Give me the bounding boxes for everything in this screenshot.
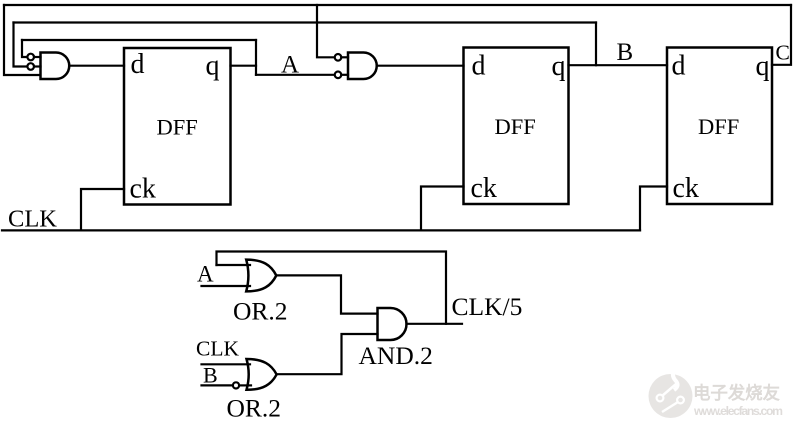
or-gate OR5 (bottom OR.2)	[247, 359, 277, 390]
svg-text:DFF: DFF	[698, 114, 739, 139]
svg-text:CLK: CLK	[196, 336, 239, 360]
svg-text:d: d	[672, 51, 686, 82]
svg-text:CLK/5: CLK/5	[452, 292, 523, 321]
and-gate AND4 (AND.2)	[378, 308, 407, 340]
wire node B: DFF2 q to DFF3 d	[569, 64, 668, 66]
wire net-A left drop to G1 bubble1	[22, 40, 27, 57]
svg-text:DFF: DFF	[495, 114, 536, 139]
wire AND4 output (CLK/5)	[407, 323, 463, 325]
svg-text:B: B	[617, 39, 634, 66]
svg-text:ck: ck	[130, 174, 156, 205]
wire net-C left drop to G1 input3	[4, 5, 40, 75]
svg-text:q: q	[206, 51, 220, 82]
svg-text:ck: ck	[471, 173, 497, 204]
dff U3	[667, 48, 772, 205]
svg-text:CLK: CLK	[8, 206, 57, 233]
wire OR3 output to AND4 input1	[277, 275, 378, 313]
svg-text:ck: ck	[673, 173, 699, 204]
wire net-C drop to G2 bubble1	[317, 5, 335, 57]
wire net-A right drop to A wire	[255, 40, 257, 75]
svg-text:A: A	[281, 52, 299, 79]
and-gate G2 (2-input, both inverted)	[335, 53, 377, 80]
svg-text:B: B	[203, 362, 218, 387]
wire DFF1 q to node A vertical	[231, 65, 257, 67]
or-gate OR3 (top OR.2)	[246, 260, 276, 292]
wire CLK branch to DFF2 ck	[421, 187, 464, 231]
wire CLK input to OR5	[202, 363, 251, 365]
and-gate G1 (3-input, two inverted)	[27, 53, 69, 80]
dff U2	[464, 48, 569, 205]
svg-text:C: C	[776, 41, 790, 65]
svg-text:电子发烧友: 电子发烧友	[693, 383, 781, 403]
wire A input to OR3	[202, 285, 251, 287]
svg-text:www.elecfans.com: www.elecfans.com	[693, 404, 783, 418]
wire net-C right drop from DFF3 q	[772, 5, 791, 65]
wire CLK main rail	[2, 229, 640, 231]
wire OR3 input1 stub	[217, 264, 251, 266]
wire B input to OR5 bubble	[202, 384, 233, 386]
watermark logo elecfans	[649, 364, 693, 418]
wire G2 output to DFF2 d	[377, 65, 464, 67]
wire CLK/5 feedback to OR3 input1	[217, 252, 447, 324]
svg-text:AND.2: AND.2	[359, 341, 433, 370]
svg-text:d: d	[472, 51, 486, 82]
svg-text:q: q	[756, 51, 770, 82]
wire net-B right drop to B wire	[595, 23, 597, 66]
wire net-B left drop to G1 bubble2	[14, 23, 28, 67]
svg-text:q: q	[552, 51, 566, 82]
wire net-A feedback line	[22, 39, 256, 41]
svg-text:OR.2: OR.2	[233, 296, 288, 325]
wire net-C top feedback line	[4, 4, 791, 6]
wire bubble to OR5	[239, 384, 251, 386]
svg-text:d: d	[131, 49, 145, 80]
svg-text:DFF: DFF	[157, 115, 198, 140]
wire CLK branch to DFF1 ck	[81, 189, 124, 230]
svg-text:OR.2: OR.2	[227, 394, 282, 423]
wire OR5 output to AND4 input2	[278, 334, 378, 374]
wire net-B feedback line	[14, 21, 597, 23]
wire node A to G2 bubble2	[256, 74, 335, 76]
svg-text:A: A	[197, 262, 214, 287]
wire CLK branch to DFF3 ck	[640, 187, 667, 231]
wire G1 output to DFF1 d	[70, 65, 125, 67]
dff U1	[124, 48, 231, 205]
inverter bubble OR5 input2	[233, 382, 239, 388]
